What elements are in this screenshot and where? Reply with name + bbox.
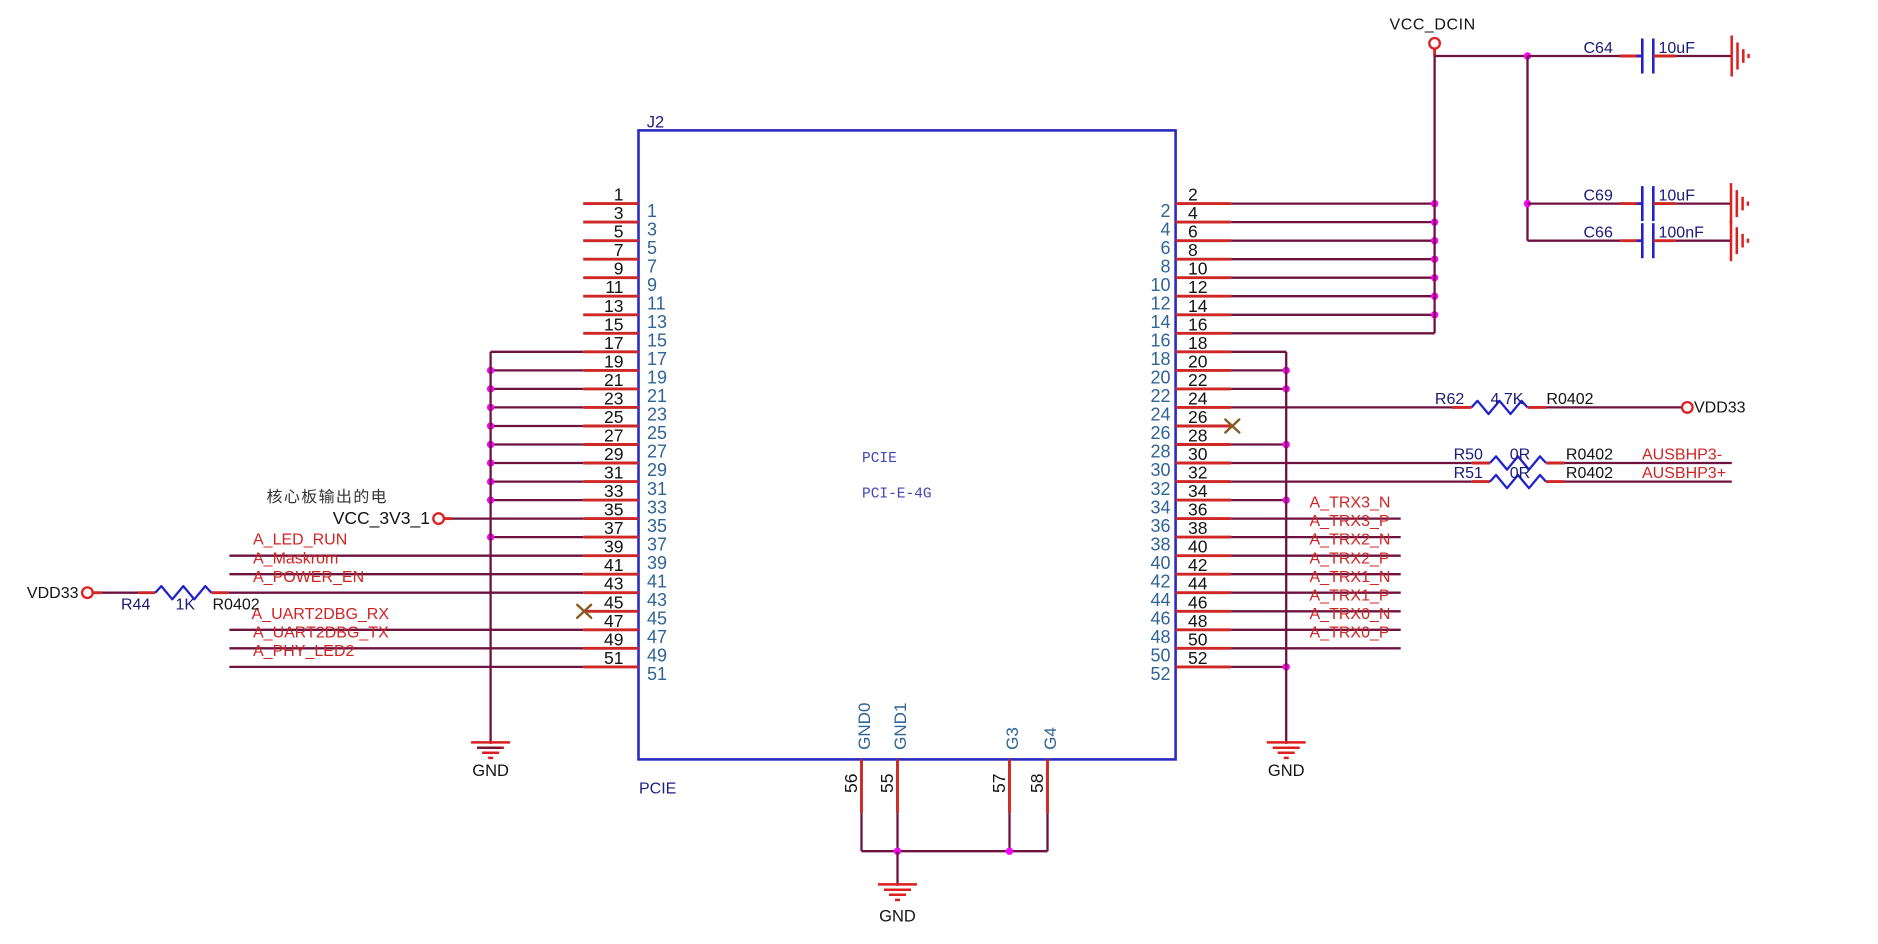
svg-text:A_TRX2_N: A_TRX2_N xyxy=(1310,532,1391,549)
wire R44 to pin43 xyxy=(228,592,583,594)
pin 30 stub xyxy=(1176,462,1232,465)
svg-text:52: 52 xyxy=(1188,648,1207,668)
svg-text:GND: GND xyxy=(472,762,509,780)
svg-text:A_UART2DBG_RX: A_UART2DBG_RX xyxy=(252,606,390,623)
svg-text:25: 25 xyxy=(647,423,667,443)
svg-text:11: 11 xyxy=(605,277,623,297)
wire pin40 A_TRX2_N xyxy=(1231,555,1401,557)
svg-text:VDD33: VDD33 xyxy=(27,585,79,602)
svg-text:46: 46 xyxy=(1150,609,1170,629)
svg-text:0R: 0R xyxy=(1510,465,1530,482)
svg-text:26: 26 xyxy=(1150,423,1170,443)
no-connect pin26 xyxy=(1225,420,1239,433)
svg-text:29: 29 xyxy=(647,460,667,480)
wire pin 55 down xyxy=(896,813,898,851)
svg-text:51: 51 xyxy=(647,664,667,684)
pin 33 stub xyxy=(583,499,638,502)
resistor R62 4.7K xyxy=(1472,401,1528,414)
pin 5 stub xyxy=(583,239,638,242)
svg-text:19: 19 xyxy=(604,351,623,371)
svg-text:GND: GND xyxy=(879,908,916,926)
svg-text:40: 40 xyxy=(1188,537,1208,557)
wire cap bus vertical xyxy=(1526,56,1528,241)
svg-text:15: 15 xyxy=(647,331,667,351)
pin 47 stub xyxy=(583,628,638,631)
pin 4 stub xyxy=(1176,221,1232,224)
svg-text:9: 9 xyxy=(614,259,624,279)
wire pin4 to VCC_DCIN bus xyxy=(1231,221,1435,223)
svg-text:C69: C69 xyxy=(1584,187,1613,204)
pin 8 stub xyxy=(1176,258,1232,261)
wire rail to ground xyxy=(896,851,898,886)
pin 20 stub xyxy=(1176,369,1232,372)
svg-text:11: 11 xyxy=(647,293,666,313)
pin 34 stub xyxy=(1176,499,1232,502)
svg-text:4: 4 xyxy=(1160,219,1170,239)
port VCC_3V3_1 xyxy=(433,513,444,524)
svg-text:44: 44 xyxy=(1188,574,1208,594)
wire net pin49 xyxy=(229,647,583,649)
svg-text:28: 28 xyxy=(1150,442,1170,462)
svg-text:18: 18 xyxy=(1188,333,1207,353)
junction pin52 xyxy=(1283,663,1290,670)
svg-text:21: 21 xyxy=(604,370,623,390)
pin 24 stub xyxy=(1176,406,1232,409)
svg-text:100nF: 100nF xyxy=(1659,225,1705,242)
svg-text:23: 23 xyxy=(604,388,623,408)
svg-text:50: 50 xyxy=(1150,646,1170,666)
wire pin44 A_TRX1_N xyxy=(1231,592,1401,594)
svg-text:R44: R44 xyxy=(121,597,150,614)
svg-text:3: 3 xyxy=(647,219,657,239)
svg-text:15: 15 xyxy=(604,314,623,334)
wire net pin41 xyxy=(229,573,583,575)
svg-text:55: 55 xyxy=(877,774,897,793)
svg-text:41: 41 xyxy=(647,571,667,591)
svg-text:45: 45 xyxy=(647,609,667,629)
svg-text:C66: C66 xyxy=(1584,225,1613,242)
bottom GND rail xyxy=(862,850,1048,852)
pin 43 stub xyxy=(583,591,638,594)
wire VCC_DCIN to C64 xyxy=(1435,55,1528,57)
wire pin46 A_TRX1_P xyxy=(1231,610,1401,612)
pin 37 stub xyxy=(583,536,638,539)
svg-text:42: 42 xyxy=(1188,555,1207,575)
svg-text:A_TRX1_P: A_TRX1_P xyxy=(1310,587,1390,604)
wire net pin39 xyxy=(229,555,583,557)
junction pin22 xyxy=(1283,385,1290,392)
wire pin32 to R51 xyxy=(1231,480,1472,482)
junction pin23 xyxy=(487,404,494,411)
pin 7 stub xyxy=(583,258,638,261)
svg-text:37: 37 xyxy=(647,534,667,554)
svg-text:12: 12 xyxy=(1188,277,1207,297)
svg-text:VCC_DCIN: VCC_DCIN xyxy=(1390,16,1476,33)
pin 12 stub xyxy=(1176,295,1232,298)
pin 16 stub xyxy=(1176,332,1232,335)
svg-text:17: 17 xyxy=(647,349,667,369)
pin 17 stub xyxy=(583,350,638,353)
svg-text:33: 33 xyxy=(604,481,623,501)
capacitor C69 10uF xyxy=(1528,202,1620,204)
pin 21 stub xyxy=(583,387,638,390)
wire pin18 to GND bus xyxy=(1231,351,1286,353)
svg-text:A_Maskrom: A_Maskrom xyxy=(253,550,338,567)
junction pin21 xyxy=(487,385,494,392)
svg-text:1K: 1K xyxy=(176,597,196,614)
svg-text:GND: GND xyxy=(1268,762,1305,780)
pin 14 stub xyxy=(1176,313,1232,316)
junction pin10 xyxy=(1431,274,1438,281)
svg-text:52: 52 xyxy=(1150,664,1170,684)
wire pin23 to GND bus xyxy=(491,406,584,408)
junction pin25 xyxy=(487,422,494,429)
wire pin 57 down xyxy=(1008,813,1010,851)
pin 10 stub xyxy=(1176,276,1232,279)
svg-text:27: 27 xyxy=(604,426,623,446)
svg-text:26: 26 xyxy=(1188,407,1207,427)
svg-text:43: 43 xyxy=(647,590,667,610)
svg-text:35: 35 xyxy=(647,516,667,536)
wire pin14 to VCC_DCIN bus xyxy=(1231,314,1435,316)
wire pin19 to GND bus xyxy=(491,369,584,371)
resistor R51 0R xyxy=(1490,475,1546,488)
wire VDD33 to R44 xyxy=(93,591,102,594)
svg-text:13: 13 xyxy=(647,312,667,332)
pin 35 stub xyxy=(583,517,638,520)
svg-text:38: 38 xyxy=(1188,518,1207,538)
wire pin28 to GND bus xyxy=(1231,443,1286,445)
pin 6 stub xyxy=(1176,239,1232,242)
svg-text:39: 39 xyxy=(647,553,667,573)
svg-text:30: 30 xyxy=(1150,460,1170,480)
junction C64 branch xyxy=(1524,52,1531,59)
junction pin37 xyxy=(487,533,494,540)
svg-text:14: 14 xyxy=(1188,296,1208,316)
svg-text:49: 49 xyxy=(604,629,623,649)
svg-text:19: 19 xyxy=(647,368,667,388)
right GND bus xyxy=(1285,352,1287,744)
pin 29 stub xyxy=(583,462,638,465)
wire pin20 to GND bus xyxy=(1231,369,1286,371)
junction pin14 xyxy=(1431,311,1438,318)
pin 56 stub xyxy=(860,759,863,813)
junction pin34 xyxy=(1283,496,1290,503)
ground C69 xyxy=(1730,183,1733,224)
junction pin55 xyxy=(894,848,901,855)
pin 55 stub xyxy=(896,759,899,813)
resistor R44 1K xyxy=(155,586,211,599)
svg-text:14: 14 xyxy=(1150,312,1170,332)
wire pin52 to GND bus xyxy=(1231,666,1286,668)
ground C66 xyxy=(1730,220,1733,261)
junction pin19 xyxy=(487,367,494,374)
wire pin36 A_TRX3_N xyxy=(1231,517,1401,519)
svg-text:4.7K: 4.7K xyxy=(1491,391,1524,408)
pin 39 stub xyxy=(583,554,638,557)
port VDD33 right xyxy=(1682,402,1693,413)
wire pin25 to GND bus xyxy=(491,425,584,427)
svg-text:47: 47 xyxy=(604,611,623,631)
svg-text:VDD33: VDD33 xyxy=(1694,400,1746,417)
svg-text:28: 28 xyxy=(1188,426,1207,446)
port VDD33 left xyxy=(82,587,93,598)
junction C69 branch xyxy=(1524,200,1531,207)
ground right xyxy=(1267,741,1306,744)
pin 50 stub xyxy=(1176,647,1232,650)
pin 51 stub xyxy=(583,665,638,668)
svg-text:44: 44 xyxy=(1150,590,1170,610)
svg-text:8: 8 xyxy=(1188,240,1198,260)
wire pin42 A_TRX2_P xyxy=(1231,573,1401,575)
wire pin12 to VCC_DCIN bus xyxy=(1231,295,1435,297)
pin 25 stub xyxy=(583,425,638,428)
svg-text:56: 56 xyxy=(841,774,861,793)
pin 26 stub xyxy=(1176,425,1232,428)
pin 18 stub xyxy=(1176,350,1232,353)
svg-text:A_POWER_EN: A_POWER_EN xyxy=(253,569,364,586)
svg-text:29: 29 xyxy=(604,444,623,464)
svg-text:A_TRX3_N: A_TRX3_N xyxy=(1310,495,1391,512)
svg-text:7: 7 xyxy=(647,256,657,276)
pin 2 stub xyxy=(1176,202,1232,205)
wire net pin51 xyxy=(229,666,583,668)
svg-text:25: 25 xyxy=(604,407,623,427)
svg-text:33: 33 xyxy=(647,497,667,517)
ground left xyxy=(471,741,510,744)
svg-text:5: 5 xyxy=(614,222,624,242)
svg-text:A_TRX1_N: A_TRX1_N xyxy=(1310,569,1391,586)
wire pin29 to GND bus xyxy=(491,462,584,464)
svg-text:40: 40 xyxy=(1150,553,1170,573)
pin 1 stub xyxy=(583,202,638,205)
svg-text:G4: G4 xyxy=(1041,727,1060,750)
wire pin2 to VCC_DCIN bus xyxy=(1231,202,1435,204)
svg-text:R62: R62 xyxy=(1435,391,1464,408)
wire pin8 to VCC_DCIN bus xyxy=(1231,258,1435,260)
svg-text:34: 34 xyxy=(1150,497,1170,517)
svg-text:C64: C64 xyxy=(1584,40,1613,57)
svg-text:6: 6 xyxy=(1188,222,1198,242)
wire pin50 A_TRX0_P xyxy=(1231,647,1401,649)
svg-text:A_LED_RUN: A_LED_RUN xyxy=(253,532,347,549)
svg-text:10: 10 xyxy=(1188,259,1208,279)
pin 40 stub xyxy=(1176,554,1232,557)
svg-text:43: 43 xyxy=(604,574,623,594)
svg-text:R50: R50 xyxy=(1454,447,1483,464)
pin 46 stub xyxy=(1176,610,1232,613)
svg-text:27: 27 xyxy=(647,442,667,462)
svg-text:A_TRX0_N: A_TRX0_N xyxy=(1310,606,1391,623)
svg-text:10: 10 xyxy=(1150,275,1170,295)
svg-text:24: 24 xyxy=(1150,405,1170,425)
svg-text:45: 45 xyxy=(604,592,623,612)
resistor R50 0R xyxy=(1490,456,1546,469)
svg-text:46: 46 xyxy=(1188,592,1207,612)
svg-text:20: 20 xyxy=(1188,351,1208,371)
svg-text:24: 24 xyxy=(1188,388,1208,408)
wire pin30 to R50 xyxy=(1231,462,1472,464)
svg-text:A_PHY_LED2: A_PHY_LED2 xyxy=(253,643,354,660)
no-connect pin45 xyxy=(577,605,591,618)
svg-text:34: 34 xyxy=(1188,481,1208,501)
svg-text:GND1: GND1 xyxy=(891,703,910,750)
junction pin57 xyxy=(1006,848,1013,855)
svg-text:PCI-E-4G: PCI-E-4G xyxy=(862,487,932,503)
wire pin21 to GND bus xyxy=(491,388,584,390)
wire pin34 to GND bus xyxy=(1231,499,1286,501)
pin 36 stub xyxy=(1176,517,1232,520)
svg-text:37: 37 xyxy=(604,518,623,538)
svg-text:A_TRX0_P: A_TRX0_P xyxy=(1310,624,1390,641)
wire pin 58 down xyxy=(1046,813,1048,851)
pin 22 stub xyxy=(1176,387,1232,390)
svg-text:23: 23 xyxy=(647,405,667,425)
connector J2 body xyxy=(639,130,1176,759)
junction pin28 xyxy=(1283,441,1290,448)
capacitor C66 100nF xyxy=(1528,240,1620,242)
svg-text:22: 22 xyxy=(1188,370,1207,390)
wire pin33 to GND bus xyxy=(491,499,584,501)
junction pin6 xyxy=(1431,237,1438,244)
wire R50 to AUSBHP3- xyxy=(1565,462,1732,464)
svg-text:A_UART2DBG_TX: A_UART2DBG_TX xyxy=(253,624,389,641)
wire pin 56 down xyxy=(860,813,862,851)
svg-text:GND0: GND0 xyxy=(855,703,874,750)
svg-text:22: 22 xyxy=(1150,386,1170,406)
pin 11 stub xyxy=(583,295,638,298)
junction pin27 xyxy=(487,441,494,448)
svg-text:2: 2 xyxy=(1160,201,1170,221)
svg-text:6: 6 xyxy=(1160,238,1170,258)
svg-text:16: 16 xyxy=(1150,331,1170,351)
svg-text:13: 13 xyxy=(604,296,623,316)
svg-text:1: 1 xyxy=(614,185,624,205)
svg-text:0R: 0R xyxy=(1510,447,1530,464)
pin 32 stub xyxy=(1176,480,1232,483)
junction pin29 xyxy=(487,459,494,466)
svg-text:18: 18 xyxy=(1150,349,1170,369)
pin 42 stub xyxy=(1176,573,1232,576)
svg-text:8: 8 xyxy=(1160,256,1170,276)
svg-text:9: 9 xyxy=(647,275,657,295)
svg-text:31: 31 xyxy=(647,479,667,499)
pin 15 stub xyxy=(583,332,638,335)
wire VCC_DCIN vertical bus xyxy=(1433,49,1436,56)
wire pin17 to GND bus xyxy=(491,351,584,353)
pin 13 stub xyxy=(583,313,638,316)
svg-text:21: 21 xyxy=(647,386,667,406)
wire pin16 to VCC_DCIN bus xyxy=(1231,332,1435,334)
pin 58 stub xyxy=(1046,759,1049,813)
svg-text:J2: J2 xyxy=(647,113,664,131)
svg-text:32: 32 xyxy=(1150,479,1170,499)
svg-text:1: 1 xyxy=(647,201,657,221)
pin 27 stub xyxy=(583,443,638,446)
wire pin6 to VCC_DCIN bus xyxy=(1231,240,1435,242)
pin 48 stub xyxy=(1176,628,1232,631)
svg-text:20: 20 xyxy=(1150,368,1170,388)
svg-text:AUSBHP3-: AUSBHP3- xyxy=(1642,447,1722,464)
junction pin4 xyxy=(1431,218,1438,225)
svg-text:R0402: R0402 xyxy=(1566,447,1613,464)
svg-text:47: 47 xyxy=(647,627,667,647)
svg-text:AUSBHP3+: AUSBHP3+ xyxy=(1642,465,1726,482)
svg-text:10uF: 10uF xyxy=(1659,187,1696,204)
pin 23 stub xyxy=(583,406,638,409)
svg-text:10uF: 10uF xyxy=(1659,40,1696,57)
svg-text:31: 31 xyxy=(604,463,623,483)
wire pin27 to GND bus xyxy=(491,443,584,445)
svg-text:38: 38 xyxy=(1150,534,1170,554)
pin 45 stub xyxy=(583,610,638,613)
wire R51 to AUSBHP3+ xyxy=(1565,480,1732,482)
pin 44 stub xyxy=(1176,591,1232,594)
ground C64 xyxy=(1730,36,1733,77)
junction pin8 xyxy=(1431,256,1438,263)
wire pin24 to R62 xyxy=(1231,406,1452,408)
wire net pin47 xyxy=(229,629,583,631)
wire VCC_3V3_1 to pin35 xyxy=(444,517,453,520)
svg-text:PCIE: PCIE xyxy=(862,451,897,467)
svg-text:39: 39 xyxy=(604,537,623,557)
pin 49 stub xyxy=(583,647,638,650)
svg-text:5: 5 xyxy=(647,238,657,258)
svg-text:58: 58 xyxy=(1027,774,1047,793)
left GND bus xyxy=(489,352,491,744)
svg-text:50: 50 xyxy=(1188,629,1208,649)
pin 57 stub xyxy=(1008,759,1011,813)
svg-text:R0402: R0402 xyxy=(213,597,260,614)
svg-text:16: 16 xyxy=(1188,314,1207,334)
svg-text:4: 4 xyxy=(1188,203,1198,223)
svg-text:35: 35 xyxy=(604,500,623,520)
svg-text:PCIE: PCIE xyxy=(639,781,676,798)
pin 31 stub xyxy=(583,480,638,483)
wire pin37 to GND bus xyxy=(491,536,584,538)
pin 9 stub xyxy=(583,276,638,279)
svg-text:2: 2 xyxy=(1188,185,1198,205)
svg-text:R51: R51 xyxy=(1454,465,1483,482)
svg-text:42: 42 xyxy=(1150,571,1170,591)
wire pin22 to GND bus xyxy=(1231,388,1286,390)
junction pin33 xyxy=(487,496,494,503)
wire pin31 to GND bus xyxy=(491,480,584,482)
junction pin2 xyxy=(1431,200,1438,207)
svg-text:3: 3 xyxy=(614,203,624,223)
svg-text:48: 48 xyxy=(1150,627,1170,647)
svg-text:VCC_3V3_1: VCC_3V3_1 xyxy=(333,508,430,529)
svg-text:R0402: R0402 xyxy=(1566,465,1613,482)
wire pin10 to VCC_DCIN bus xyxy=(1231,277,1435,279)
svg-text:36: 36 xyxy=(1150,516,1170,536)
svg-text:36: 36 xyxy=(1188,500,1207,520)
note text (chinese) xyxy=(267,489,386,504)
pin 38 stub xyxy=(1176,536,1232,539)
svg-text:R0402: R0402 xyxy=(1546,391,1593,408)
svg-text:A_TRX2_P: A_TRX2_P xyxy=(1310,550,1390,567)
pin 19 stub xyxy=(583,369,638,372)
svg-text:30: 30 xyxy=(1188,444,1208,464)
svg-text:G3: G3 xyxy=(1003,727,1022,750)
pin 3 stub xyxy=(583,221,638,224)
wire pin48 A_TRX0_N xyxy=(1231,629,1401,631)
svg-text:12: 12 xyxy=(1150,293,1170,313)
wire R62 to VDD33 xyxy=(1546,406,1682,408)
pin 28 stub xyxy=(1176,443,1232,446)
junction pin31 xyxy=(487,478,494,485)
svg-text:57: 57 xyxy=(989,774,1009,793)
